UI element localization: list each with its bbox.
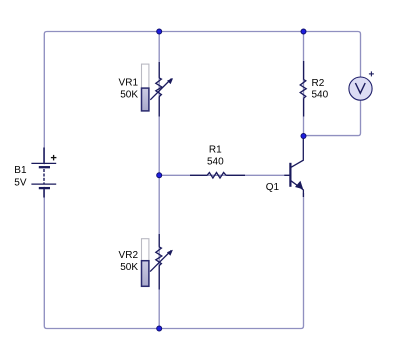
svg-text:540: 540	[312, 90, 329, 101]
svg-text:VR2: VR2	[119, 250, 139, 261]
transistor Q1 emitter arrow head	[295, 181, 303, 189]
junction node: top right	[301, 29, 306, 34]
junction node: bottom middle	[157, 326, 162, 331]
wire: voltmeter bottom lead	[304, 101, 361, 136]
svg-text:VR1: VR1	[119, 77, 139, 88]
voltmeter V mark	[355, 83, 365, 93]
potentiometer VR1 arrow head	[167, 78, 173, 84]
voltmeter plus sign	[369, 71, 374, 76]
junction node: base branch	[157, 173, 162, 178]
svg-text:R1: R1	[209, 145, 222, 156]
wire: middle vertical x=159	[158, 32, 160, 329]
potentiometer VR1 symbol	[150, 62, 171, 117]
potentiometer VR1 slider track	[142, 64, 149, 88]
battery plus sign	[51, 155, 57, 161]
voltmeter body	[349, 77, 372, 100]
potentiometer VR1 slider handle	[142, 88, 149, 111]
svg-text:B1: B1	[14, 165, 27, 176]
svg-text:5V: 5V	[14, 177, 27, 188]
wire: base branch y=175.3	[159, 174, 290, 176]
svg-text:50K: 50K	[120, 89, 138, 100]
junction node: top middle	[157, 29, 162, 34]
potentiometer VR2 slider track	[142, 239, 149, 261]
svg-text:50K: 50K	[120, 262, 138, 273]
resistor R1	[190, 173, 245, 179]
battery B1	[42, 164, 45, 187]
svg-text:R2: R2	[312, 78, 325, 89]
potentiometer VR2 slider handle	[142, 261, 149, 287]
junction node: collector	[301, 134, 306, 139]
svg-text:540: 540	[207, 156, 224, 167]
potentiometer VR2 symbol	[150, 234, 171, 290]
wire: outer loop (voltmeter top lead, top wire, left wire, bottom wire, emitter riser)	[44, 32, 360, 329]
potentiometer VR2 arrow head	[167, 250, 173, 256]
svg-text:Q1: Q1	[266, 182, 280, 193]
transistor Q1	[284, 136, 303, 197]
resistor R2	[300, 61, 306, 117]
wire: right vertical top (R2 branch)	[303, 32, 305, 137]
